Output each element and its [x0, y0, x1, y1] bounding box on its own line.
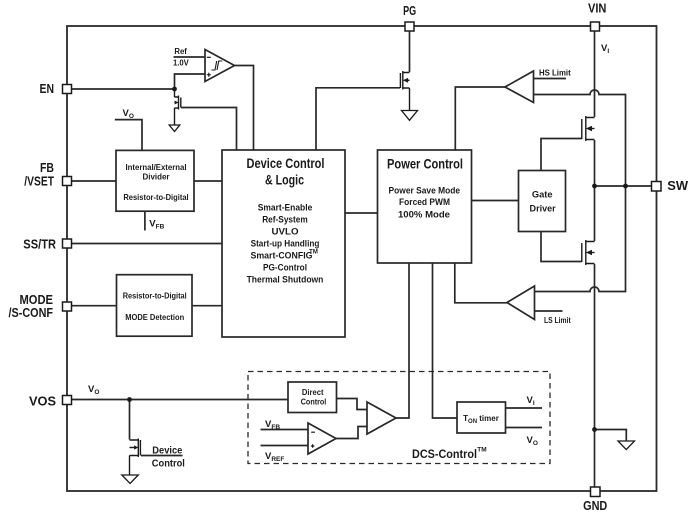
- svg-text:VOS: VOS: [29, 395, 56, 409]
- svg-text:1.0V: 1.0V: [173, 59, 189, 68]
- svg-text:Driver: Driver: [530, 203, 556, 214]
- svg-text:VIN: VIN: [588, 2, 607, 16]
- svg-text:GND: GND: [583, 499, 607, 513]
- svg-text:Device Control: Device Control: [247, 156, 325, 171]
- svg-text:Smart-Enable: Smart-Enable: [258, 202, 313, 213]
- svg-text:MODE Detection: MODE Detection: [125, 313, 184, 322]
- svg-text:TM: TM: [477, 447, 486, 454]
- svg-text:UVLO: UVLO: [272, 226, 299, 237]
- svg-text:DCS-Control: DCS-Control: [412, 449, 477, 461]
- svg-text:EN: EN: [40, 82, 55, 96]
- svg-text:100% Mode: 100% Mode: [398, 210, 450, 221]
- svg-text:Power Save Mode: Power Save Mode: [389, 186, 461, 197]
- svg-text:Power Control: Power Control: [387, 156, 463, 171]
- svg-text:Device: Device: [152, 444, 182, 456]
- svg-text:Thermal Shutdown: Thermal Shutdown: [247, 274, 324, 285]
- svg-text:HS Limit: HS Limit: [539, 69, 571, 78]
- svg-text:PG: PG: [403, 4, 416, 18]
- svg-text:Start-up Handling: Start-up Handling: [251, 238, 320, 249]
- svg-text:SW: SW: [667, 179, 688, 193]
- svg-text:& Logic: & Logic: [265, 172, 304, 187]
- svg-text:TM: TM: [309, 250, 318, 256]
- svg-text:PG-Control: PG-Control: [263, 262, 307, 273]
- svg-text:Control: Control: [152, 458, 185, 470]
- svg-text:SS/TR: SS/TR: [23, 238, 56, 252]
- svg-text:Ref-System: Ref-System: [262, 214, 308, 225]
- svg-text:Direct: Direct: [302, 388, 324, 397]
- svg-text:Resistor-to-Digital: Resistor-to-Digital: [123, 193, 188, 202]
- svg-text:Ref: Ref: [174, 47, 187, 56]
- svg-text:MODE: MODE: [20, 293, 54, 307]
- svg-text:/VSET: /VSET: [24, 175, 54, 189]
- svg-text:Internal/External: Internal/External: [126, 163, 187, 172]
- svg-text:/S-CONF: /S-CONF: [9, 306, 54, 320]
- svg-text:Forced PWM: Forced PWM: [399, 197, 450, 208]
- svg-text:FB: FB: [40, 161, 54, 175]
- svg-text:Smart-CONFIG: Smart-CONFIG: [251, 250, 313, 261]
- svg-text:Control: Control: [301, 398, 327, 407]
- svg-text:LS Limit: LS Limit: [544, 316, 571, 325]
- svg-text:Resistor-to-Digital: Resistor-to-Digital: [123, 291, 187, 300]
- svg-text:Gate: Gate: [532, 190, 553, 201]
- svg-text:Divider: Divider: [143, 173, 170, 182]
